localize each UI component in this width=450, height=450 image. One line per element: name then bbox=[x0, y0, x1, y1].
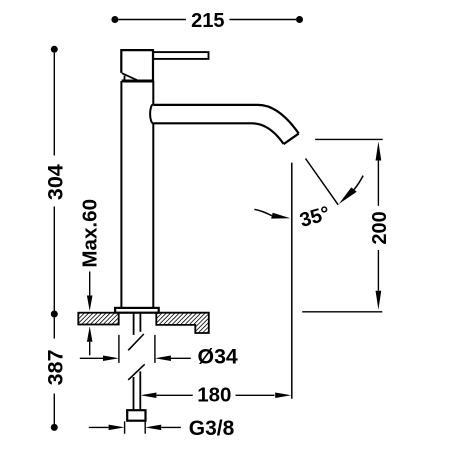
dimension 387 dimension-line bbox=[53, 318, 55, 425]
dimension D34 extension lines bbox=[118, 335, 120, 363]
dimension 200 bottom extension line bbox=[302, 311, 382, 313]
faucet column right edge upper bbox=[152, 81, 154, 105]
dimension D34 left arrow bbox=[80, 357, 103, 359]
dimension 200 top arrow bbox=[376, 142, 382, 161]
spout bottom edge bbox=[153, 123, 283, 144]
dimension 304 dimension-line bbox=[53, 53, 55, 311]
dimension 387 bottom dot bbox=[51, 424, 58, 431]
dimension 215 left dot bbox=[111, 16, 118, 23]
Max.60 down arrow bbox=[89, 272, 91, 298]
faucet head box bbox=[121, 50, 153, 81]
faucet column right edge lower bbox=[152, 123, 154, 308]
dimension G3/8 right arrow bbox=[145, 425, 161, 431]
svg-text:304: 304 bbox=[43, 164, 67, 200]
svg-text:Ø34: Ø34 bbox=[198, 345, 238, 369]
dimension G3/8 extension ticks bbox=[124, 421, 126, 433]
angle arc arrow left bbox=[254, 209, 272, 215]
base flange bbox=[115, 308, 159, 313]
dimension 180 right arrow bbox=[236, 394, 275, 396]
shank lower segment bbox=[133, 377, 135, 410]
pipe break slash 1 bbox=[128, 334, 144, 350]
svg-text:180: 180 bbox=[197, 384, 231, 407]
svg-text:Max.60: Max.60 bbox=[78, 199, 101, 268]
pipe break slash 2 bbox=[128, 364, 145, 380]
faucet head small vertical notch bbox=[124, 76, 126, 80]
spout outlet face bbox=[284, 134, 299, 145]
dimension 304 top dot bbox=[51, 46, 58, 53]
svg-text:215: 215 bbox=[191, 10, 224, 32]
dimension D34 right arrow bbox=[155, 356, 171, 362]
faucet column left edge bbox=[120, 81, 122, 308]
lever rod bbox=[153, 52, 208, 59]
shank upper segment bbox=[133, 313, 135, 335]
svg-text:200: 200 bbox=[369, 211, 391, 244]
faucet head bottom thick line bbox=[122, 80, 154, 83]
G3/8 fitting bbox=[127, 410, 145, 421]
spout top edge bbox=[153, 105, 298, 134]
countertop left section with hatching bbox=[78, 313, 118, 325]
Max.60 up arrow bbox=[87, 326, 93, 342]
dimension 200 top extension line bbox=[315, 138, 383, 140]
angle arc arrow right bbox=[354, 176, 363, 190]
dimension 215 right dot bbox=[296, 16, 303, 23]
spout left rounded cap bbox=[150, 104, 153, 123]
dimension 180 left arrow bbox=[140, 393, 156, 399]
dimension 304 bottom dot bbox=[51, 311, 58, 318]
svg-text:G3/8: G3/8 bbox=[189, 417, 235, 440]
countertop right section with hatching bbox=[156, 313, 209, 333]
water stream 35 degree diagonal line bbox=[306, 159, 339, 205]
faucet head diagonal (lever bottom) bbox=[122, 73, 137, 80]
dimension 215 dimension-line bbox=[118, 19, 296, 21]
dimension 200 bottom arrow bbox=[377, 250, 379, 291]
water stream vertical line bbox=[291, 163, 293, 399]
dimension G3/8 left arrow bbox=[89, 426, 109, 428]
svg-text:387: 387 bbox=[43, 349, 67, 385]
